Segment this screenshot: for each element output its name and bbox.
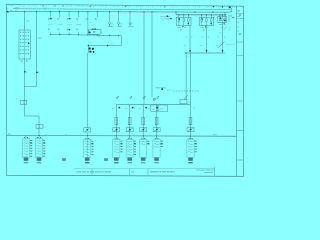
svg-text:x2: x2	[184, 27, 186, 29]
svg-text:A2: A2	[48, 28, 50, 31]
bus L3 riser left	[175, 12, 177, 15]
branch wire 5	[190, 116, 192, 136]
contact S1 rail stub	[49, 33, 51, 35]
svg-text:o: o	[89, 33, 90, 35]
horn H1 marks	[93, 31, 95, 32]
svg-text:L1: L1	[120, 24, 122, 26]
bus L3 riser right	[224, 12, 226, 15]
svg-text:b: b	[39, 73, 40, 75]
lamp HL6	[84, 128, 91, 132]
terminal X4 stub	[86, 136, 88, 140]
horn H1 dot	[89, 31, 91, 33]
branch wire 3	[142, 105, 144, 136]
svg-text:xx: xx	[237, 31, 239, 33]
title strip dividers	[91, 169, 93, 176]
wire loop bottom	[36, 65, 38, 87]
contact S1 drop wire	[49, 12, 51, 18]
svg-text:xxxxxxx xx xxxx xx xxxx: xxxxxxx xx xxxx xx xxxx	[150, 172, 175, 174]
earth slash	[218, 42, 225, 48]
starter Q3 pole 3	[224, 15, 226, 18]
contact S1	[48, 24, 53, 25]
svg-text:1: 1	[26, 17, 27, 19]
svg-text:xxxx 50Hz x: xxxx 50Hz x	[161, 19, 172, 21]
svg-text:50: 50	[200, 45, 202, 47]
svg-text:n2: n2	[110, 43, 112, 45]
terminal X2 body	[22, 139, 29, 158]
svg-text:380V 50Hz: 380V 50Hz	[156, 87, 166, 89]
starter Q3 dots	[220, 18, 221, 19]
branch wire 1	[115, 105, 117, 136]
node b dot	[36, 72, 38, 74]
svg-text:xx: xx	[237, 22, 239, 24]
bus L3 junction dots	[178, 14, 179, 15]
svg-text:x2: x2	[225, 24, 227, 26]
svg-text:x: x	[148, 108, 149, 110]
off-page flag PE1	[108, 22, 110, 25]
reference col dots top	[239, 14, 240, 15]
spare foot 2	[104, 158, 108, 161]
terminal X7 rows	[141, 141, 150, 145]
terminal X7 stub	[142, 136, 144, 139]
starter Q1 pole 1	[178, 15, 180, 18]
terminal X6 rows	[127, 141, 136, 156]
connector X1 pin rows	[20, 32, 29, 55]
reference column dividers	[236, 12, 243, 14]
terminal X2 top dots	[24, 137, 25, 138]
terminal X3 body	[35, 139, 42, 158]
svg-text:xxxxx xx xxxxxx: xxxxx xx xxxxxx	[95, 172, 112, 174]
svg-text:A1: A1	[57, 18, 59, 21]
section label dot	[161, 88, 163, 90]
svg-text:1x: 1x	[90, 22, 92, 24]
svg-text:o: o	[90, 42, 91, 44]
ruler zone numbers	[11, 5, 243, 8]
svg-text:L0: L0	[65, 134, 67, 136]
bus L2 junction dots	[24, 11, 25, 12]
svg-text:-3: -3	[220, 32, 222, 34]
svg-text:1x: 1x	[152, 108, 154, 110]
svg-text:x 40: x 40	[178, 30, 181, 32]
terminal X5 bottom text	[114, 162, 118, 163]
terminal X7 top dots	[141, 138, 142, 139]
bus L1	[13, 8, 230, 11]
off-page flag PE3 wire	[129, 12, 131, 22]
lamp HL1	[113, 128, 120, 132]
bus N junction dots	[38, 135, 39, 136]
svg-text:xxxxxx: xxxxxx	[167, 90, 172, 92]
terminal X8 stub	[156, 136, 158, 139]
group 2 junction dot	[206, 50, 208, 52]
connector X1 body	[19, 30, 30, 59]
bus N	[7, 135, 237, 138]
connector X1 pin dot	[28, 43, 30, 45]
fuse FU2	[128, 118, 131, 125]
terminal X3 foot	[37, 158, 42, 161]
svg-text:A1: A1	[76, 18, 78, 21]
rotated reference text A	[0, 0, 1, 1]
svg-text:xx: xx	[237, 26, 239, 28]
terminal X9 body	[187, 139, 194, 157]
terminal X4 top dots	[85, 138, 86, 139]
terminal X9 bottom text	[188, 162, 192, 163]
terminal X2 rows	[24, 140, 33, 157]
terminal X2 stub	[25, 136, 27, 139]
terminal X5 foot	[114, 158, 119, 161]
svg-text:xx: xx	[228, 30, 230, 32]
svg-text:A1: A1	[86, 18, 88, 21]
reference column left edge	[235, 6, 237, 176]
group 3 junction dot	[222, 50, 224, 52]
wire tag W4	[157, 97, 159, 99]
contact S5 drop wire	[87, 12, 89, 18]
terminal X8 rows	[154, 141, 163, 148]
group 1 output wire	[189, 26, 191, 54]
contact S3 drop wire	[68, 12, 70, 18]
ruler zone ticks	[9, 4, 240, 7]
svg-text:x 40: x 40	[201, 30, 204, 32]
contact S2 rail stub	[59, 33, 61, 35]
lamp HL6 tail	[86, 133, 88, 136]
border frame	[7, 4, 244, 176]
starter Q2 box	[199, 17, 214, 25]
terminal X3 bottom text	[37, 162, 41, 163]
svg-text:A1: A1	[48, 18, 50, 21]
svg-text:x2: x2	[207, 27, 209, 29]
contact S5 through wire	[87, 17, 89, 35]
terminal X5 body	[113, 139, 120, 157]
horn H1 cap	[92, 28, 96, 29]
horn H1 body	[88, 30, 101, 35]
reference col dots	[0, 0, 1, 1]
transformer header dots	[167, 15, 169, 17]
collector wire	[186, 52, 224, 54]
fuse FU4	[155, 118, 158, 125]
bus L3	[176, 14, 227, 16]
terminal X2 foot	[24, 158, 29, 161]
title strip rule	[74, 168, 215, 170]
terminal X7 foot	[141, 158, 146, 161]
ladder rail	[50, 34, 121, 35]
meter glyph	[153, 98, 155, 100]
contact S3	[67, 24, 72, 25]
svg-text:ae: ae	[15, 10, 17, 12]
group 2 output wire	[206, 26, 208, 54]
fuse FU5	[189, 118, 192, 125]
svg-text:18: 18	[230, 16, 232, 18]
contact S4	[76, 24, 81, 25]
rail flag dots	[109, 35, 110, 36]
connector X1 center wire	[23, 30, 25, 59]
svg-text:xxxxxx xxx: xxxxxx xxx	[204, 172, 213, 174]
svg-text:x2x: x2x	[160, 108, 163, 110]
off-page flag PE3	[129, 22, 131, 25]
wire tag W2	[130, 97, 132, 99]
rail box dot	[156, 107, 158, 109]
wire below connector	[23, 59, 25, 116]
wire K2 down to lamp	[87, 46, 89, 54]
svg-text:x: x	[29, 134, 30, 136]
contact S4 drop wire	[78, 12, 80, 18]
return wire dots	[88, 45, 89, 46]
svg-text:x: x	[134, 108, 135, 110]
svg-text:L1: L1	[131, 24, 133, 26]
off-page flag PE2	[117, 22, 119, 25]
terminal X4 foot	[85, 158, 90, 161]
lamp HL5	[187, 128, 194, 132]
terminal X6 top dots	[128, 138, 129, 139]
node a dot	[24, 71, 26, 73]
terminal X5 top dots	[114, 138, 115, 139]
feeder wire to branch H	[190, 53, 192, 116]
spare foot 1	[62, 158, 66, 161]
breaker QF1 wire	[185, 53, 187, 100]
ruler bold numbers	[213, 6, 214, 7]
terminal X9 stub	[190, 136, 192, 139]
svg-text:x1: x1	[45, 134, 47, 136]
svg-text:50: 50	[184, 45, 186, 47]
terminal X6 bottom text	[128, 162, 132, 163]
terminal X8 top dots	[155, 138, 156, 139]
bus end arrows	[230, 9, 233, 13]
starter Q2 pole 3	[210, 15, 212, 18]
starter Q2 pole 2	[206, 15, 208, 18]
starter Q1 pole 3	[188, 15, 190, 18]
wire jog to K1	[24, 115, 39, 117]
terminal X4 body	[84, 139, 91, 157]
starter Q3 pole 1	[219, 15, 221, 18]
group 3 slash	[224, 27, 227, 30]
terminal X9 foot	[188, 158, 193, 161]
long drop wire to rail	[143, 12, 145, 105]
connector bottom labels	[21, 61, 23, 62]
svg-text:L1: L1	[111, 24, 113, 26]
terminal X8 body	[153, 139, 160, 157]
terminal X6 stub	[129, 136, 131, 140]
drop wire T1	[151, 12, 153, 97]
terminal X7 body	[140, 139, 147, 157]
svg-text:170V: 170V	[15, 7, 20, 9]
starter Q3 box	[218, 16, 227, 22]
terminal X3 top dots	[37, 137, 38, 138]
svg-text:50: 50	[216, 45, 218, 47]
starter Q2 dots	[201, 18, 202, 19]
terminal X8 foot	[154, 158, 159, 161]
branch rail	[116, 104, 190, 106]
contact S2 drop wire	[59, 12, 61, 18]
branch wire 4	[156, 105, 158, 136]
terminal X2 bottom text	[24, 162, 28, 163]
terminal X5 rows	[114, 141, 123, 153]
wire tag W3	[143, 97, 145, 99]
terminal X6 body	[126, 139, 133, 157]
svg-text:1: 1	[45, 127, 46, 129]
breaker QF1 tail	[180, 103, 182, 106]
fuse FU3	[142, 118, 145, 125]
ladder rail dots	[50, 34, 51, 35]
terminal X4 rows	[85, 141, 94, 156]
svg-text:x: x	[102, 32, 103, 34]
terminal X9 top dots	[189, 138, 190, 139]
svg-text:xxxx xxxx xx xxxx: xxxx xxxx xx xxxx	[77, 172, 96, 174]
svg-text:A1: A1	[67, 18, 69, 21]
bus L2	[8, 11, 230, 14]
rotated reference text B	[0, 0, 1, 1]
svg-text:A1: A1	[95, 18, 97, 21]
lamp HL4	[153, 128, 160, 132]
earth dashed tail	[227, 43, 237, 46]
terminal X3 rows	[37, 140, 46, 157]
starter Q1 dots	[179, 18, 180, 19]
terminal X9 rows	[188, 141, 197, 153]
terminal X4 bottom text	[85, 162, 89, 163]
off-page flag PE2 wire	[118, 12, 120, 22]
starter Q1 pole 2	[183, 15, 185, 18]
group 3 output wire	[222, 23, 224, 53]
lamp HL2	[126, 128, 133, 132]
terminal tails	[25, 161, 27, 162]
svg-text:n1: n1	[98, 37, 100, 39]
branch wire 2	[129, 105, 131, 136]
contact S3 rail stub	[68, 33, 70, 35]
terminal X5 stub	[115, 136, 117, 140]
breaker QF1 blade	[184, 95, 188, 99]
dashed link wire	[173, 90, 199, 92]
contact S2	[58, 24, 63, 25]
lamp HL3	[140, 128, 147, 132]
off-page flag PE1 wire	[109, 12, 111, 22]
svg-text:A2: A2	[57, 28, 59, 31]
terminal X6 foot	[127, 158, 132, 161]
starter Q3 pole 2	[222, 15, 224, 18]
contact K1 box	[36, 125, 43, 129]
svg-text:A2: A2	[76, 28, 78, 31]
relay K2 coil cluster	[89, 47, 91, 49]
wire from bus L2 to connector	[23, 12, 25, 30]
bus L2 start dot	[7, 11, 8, 13]
terminal X8 bottom text	[154, 162, 158, 163]
ruler darker numbers	[43, 5, 44, 6]
return wire	[88, 45, 121, 47]
svg-text:(n0): (n0)	[213, 134, 217, 136]
svg-text:a: a	[26, 72, 27, 74]
terminal X3 stub	[38, 136, 40, 139]
group 1 junction dot	[189, 50, 191, 52]
contact S4 rail stub	[78, 33, 80, 35]
contact S6 drop wire	[96, 12, 98, 18]
breaker QF1 box	[180, 100, 187, 104]
rail fuse boxes	[151, 105, 158, 111]
fuse F2 body	[21, 100, 27, 104]
group 3 aux wire	[228, 15, 230, 22]
starter Q1 box	[176, 17, 191, 25]
terminal X7 bottom text	[141, 162, 145, 163]
starter Q2 pole 1	[201, 15, 203, 18]
wire tag W1	[116, 97, 118, 99]
rail extension corner	[120, 36, 122, 46]
fuse FU1	[115, 118, 118, 125]
wire parallel right	[36, 12, 38, 65]
